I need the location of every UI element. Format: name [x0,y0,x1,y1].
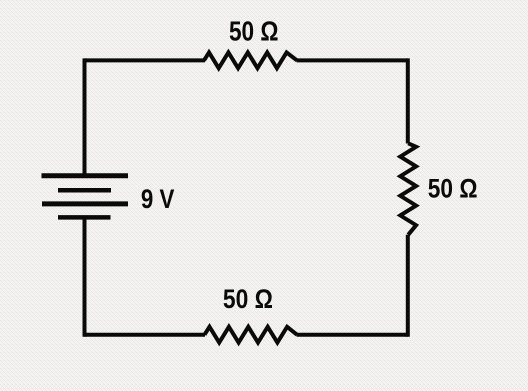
wire: left vertical upper segment (top corner to battery) [83,58,87,176]
resistor R3 (bottom, 50 ohm) [205,327,298,343]
wire: bottom-right horizontal segment [297,333,408,337]
wire: right vertical upper segment (top corner to R2) [406,58,410,143]
wire: top-right horizontal segment [297,58,408,62]
svg-text:9 V: 9 V [141,184,175,214]
short plate (negative) [58,188,111,193]
wire: top-left horizontal segment [85,58,206,62]
svg-text:50 Ω: 50 Ω [428,174,478,204]
svg-text:50 Ω: 50 Ω [223,284,273,314]
long plate (positive) [42,201,128,206]
short plate (negative, bottom) [58,215,111,220]
wire: bottom-left horizontal segment [85,333,206,337]
svg-text:50 Ω: 50 Ω [229,15,279,46]
long plate (positive, top) [42,173,129,178]
resistor R1 (top, 50 ohm) [204,52,297,68]
battery B1 (9 V source) [42,176,129,218]
wire: left vertical lower segment (battery to bottom corner) [83,217,87,336]
wire: right vertical lower segment (R2 to bottom corner) [406,235,410,337]
resistor R2 (right, 50 ohm) [400,143,416,235]
